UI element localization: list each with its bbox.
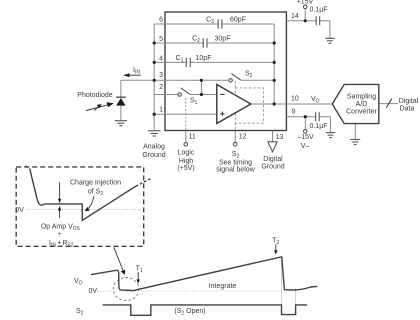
svg-text:IIN • RS2: IIN • RS2 — [49, 240, 74, 249]
svg-text:0V: 0V — [89, 288, 98, 295]
svg-text:+15V: +15V — [297, 0, 314, 5]
svg-text:Integrate: Integrate — [209, 283, 237, 290]
svg-text:A/D: A/D — [356, 101, 368, 108]
svg-text:IIN: IIN — [133, 67, 140, 76]
svg-text:13: 13 — [276, 134, 284, 141]
svg-text:Logic: Logic — [178, 150, 195, 157]
svg-text:(S2 Open): (S2 Open) — [174, 308, 205, 317]
svg-text:Digital: Digital — [399, 98, 419, 105]
svg-text:14: 14 — [291, 13, 299, 20]
svg-text:10: 10 — [291, 96, 299, 103]
svg-text:Ground: Ground — [261, 164, 284, 171]
svg-text:2: 2 — [159, 84, 163, 91]
svg-text:Charge Injection: Charge Injection — [70, 180, 121, 187]
svg-text:Converter: Converter — [346, 109, 377, 116]
svg-text:VO: VO — [311, 96, 320, 105]
svg-text:Data: Data — [400, 105, 415, 112]
svg-text:Photodiode: Photodiode — [77, 92, 113, 99]
svg-text:30pF: 30pF — [215, 36, 231, 43]
svg-text:+: + — [58, 231, 62, 238]
svg-text:Analog: Analog — [143, 143, 165, 150]
svg-text:(+5V): (+5V) — [177, 165, 194, 172]
svg-text:12: 12 — [239, 134, 247, 141]
svg-text:See timing: See timing — [219, 159, 252, 166]
svg-text:60pF: 60pF — [230, 16, 246, 23]
svg-text:signal below: signal below — [216, 167, 255, 174]
svg-text:0.1µF: 0.1µF — [309, 7, 327, 14]
svg-text:–15V: –15V — [297, 134, 314, 141]
svg-text:VO: VO — [74, 278, 83, 287]
svg-text:5: 5 — [159, 36, 163, 43]
svg-text:S1: S1 — [190, 98, 198, 107]
svg-text:0V: 0V — [15, 207, 24, 214]
svg-text:V–: V– — [301, 143, 310, 150]
svg-text:Digital: Digital — [263, 156, 283, 163]
svg-text:9: 9 — [292, 109, 296, 116]
svg-text:3: 3 — [159, 72, 163, 79]
svg-text:11: 11 — [189, 134, 196, 141]
svg-text:6: 6 — [159, 17, 163, 24]
svg-text:S2: S2 — [232, 151, 240, 160]
svg-text:Ground: Ground — [142, 152, 165, 159]
svg-text:High: High — [179, 158, 194, 165]
svg-text:T2: T2 — [272, 237, 279, 246]
svg-text:S2: S2 — [245, 71, 253, 80]
svg-text:Sampling: Sampling — [347, 93, 376, 100]
svg-text:10pF: 10pF — [196, 55, 212, 62]
svg-text:of S2: of S2 — [88, 189, 103, 198]
svg-text:0.1µF: 0.1µF — [309, 123, 327, 130]
svg-text:4: 4 — [159, 56, 163, 63]
svg-text:1: 1 — [159, 107, 163, 114]
svg-text:S2: S2 — [76, 308, 84, 317]
svg-text:T1: T1 — [136, 266, 143, 275]
